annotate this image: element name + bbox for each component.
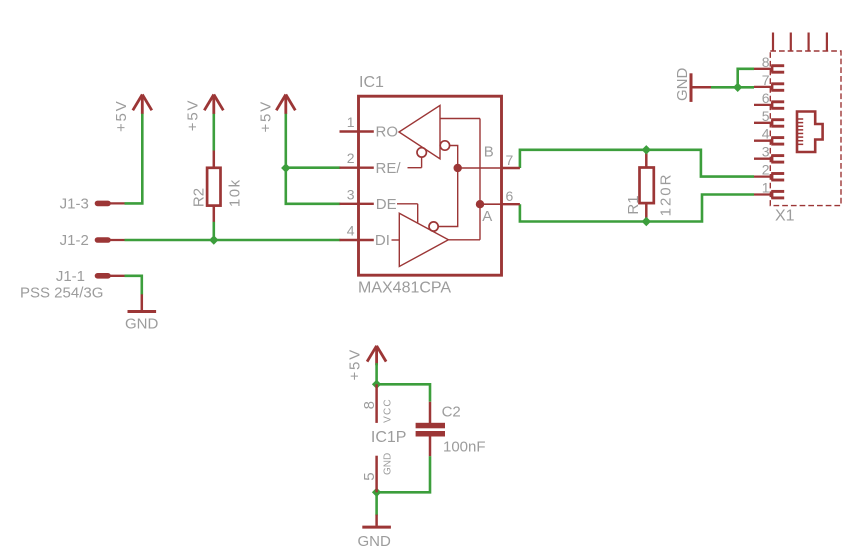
svg-text:PSS 254/3G: PSS 254/3G <box>20 285 103 302</box>
svg-text:120R: 120R <box>658 173 675 217</box>
svg-text:10k: 10k <box>227 178 244 207</box>
svg-text:GND: GND <box>674 68 691 102</box>
svg-text:+5V: +5V <box>346 348 363 381</box>
svg-text:J1-3: J1-3 <box>60 196 89 213</box>
svg-text:4: 4 <box>347 223 355 239</box>
svg-text:4: 4 <box>762 126 770 142</box>
svg-text:R1: R1 <box>625 195 642 214</box>
svg-text:8: 8 <box>762 54 770 70</box>
svg-text:B: B <box>484 144 494 161</box>
svg-text:VCC: VCC <box>383 398 394 423</box>
svg-text:C2: C2 <box>442 404 461 421</box>
svg-text:+5V: +5V <box>257 100 274 133</box>
svg-text:RO: RO <box>376 124 399 141</box>
svg-text:7: 7 <box>506 152 514 168</box>
svg-text:DI: DI <box>375 232 390 249</box>
svg-text:+5V: +5V <box>184 99 201 132</box>
svg-text:3: 3 <box>347 186 355 202</box>
svg-text:1: 1 <box>347 114 355 130</box>
svg-text:6: 6 <box>762 90 770 106</box>
svg-text:+5V: +5V <box>113 99 130 132</box>
svg-text:6: 6 <box>506 188 514 204</box>
svg-text:J1-1: J1-1 <box>56 268 85 285</box>
svg-text:5: 5 <box>762 108 770 124</box>
svg-text:X1: X1 <box>775 208 795 225</box>
svg-text:DE: DE <box>376 196 397 213</box>
svg-text:100nF: 100nF <box>443 438 486 455</box>
svg-text:7: 7 <box>762 72 770 88</box>
svg-text:IC1: IC1 <box>359 74 384 91</box>
svg-text:8: 8 <box>361 401 378 409</box>
svg-text:1: 1 <box>762 180 770 196</box>
svg-text:A: A <box>482 208 492 225</box>
svg-text:3: 3 <box>762 144 770 160</box>
svg-text:RE/: RE/ <box>376 160 402 177</box>
svg-text:GND: GND <box>383 453 394 475</box>
svg-text:IC1P: IC1P <box>371 429 407 446</box>
svg-text:GND: GND <box>125 316 159 333</box>
svg-text:J1-2: J1-2 <box>60 232 89 249</box>
svg-text:MAX481CPA: MAX481CPA <box>358 280 451 297</box>
svg-text:5: 5 <box>361 472 378 480</box>
svg-text:2: 2 <box>347 150 355 166</box>
svg-text:R2: R2 <box>191 188 208 207</box>
svg-text:GND: GND <box>358 533 392 550</box>
svg-text:2: 2 <box>762 162 770 178</box>
